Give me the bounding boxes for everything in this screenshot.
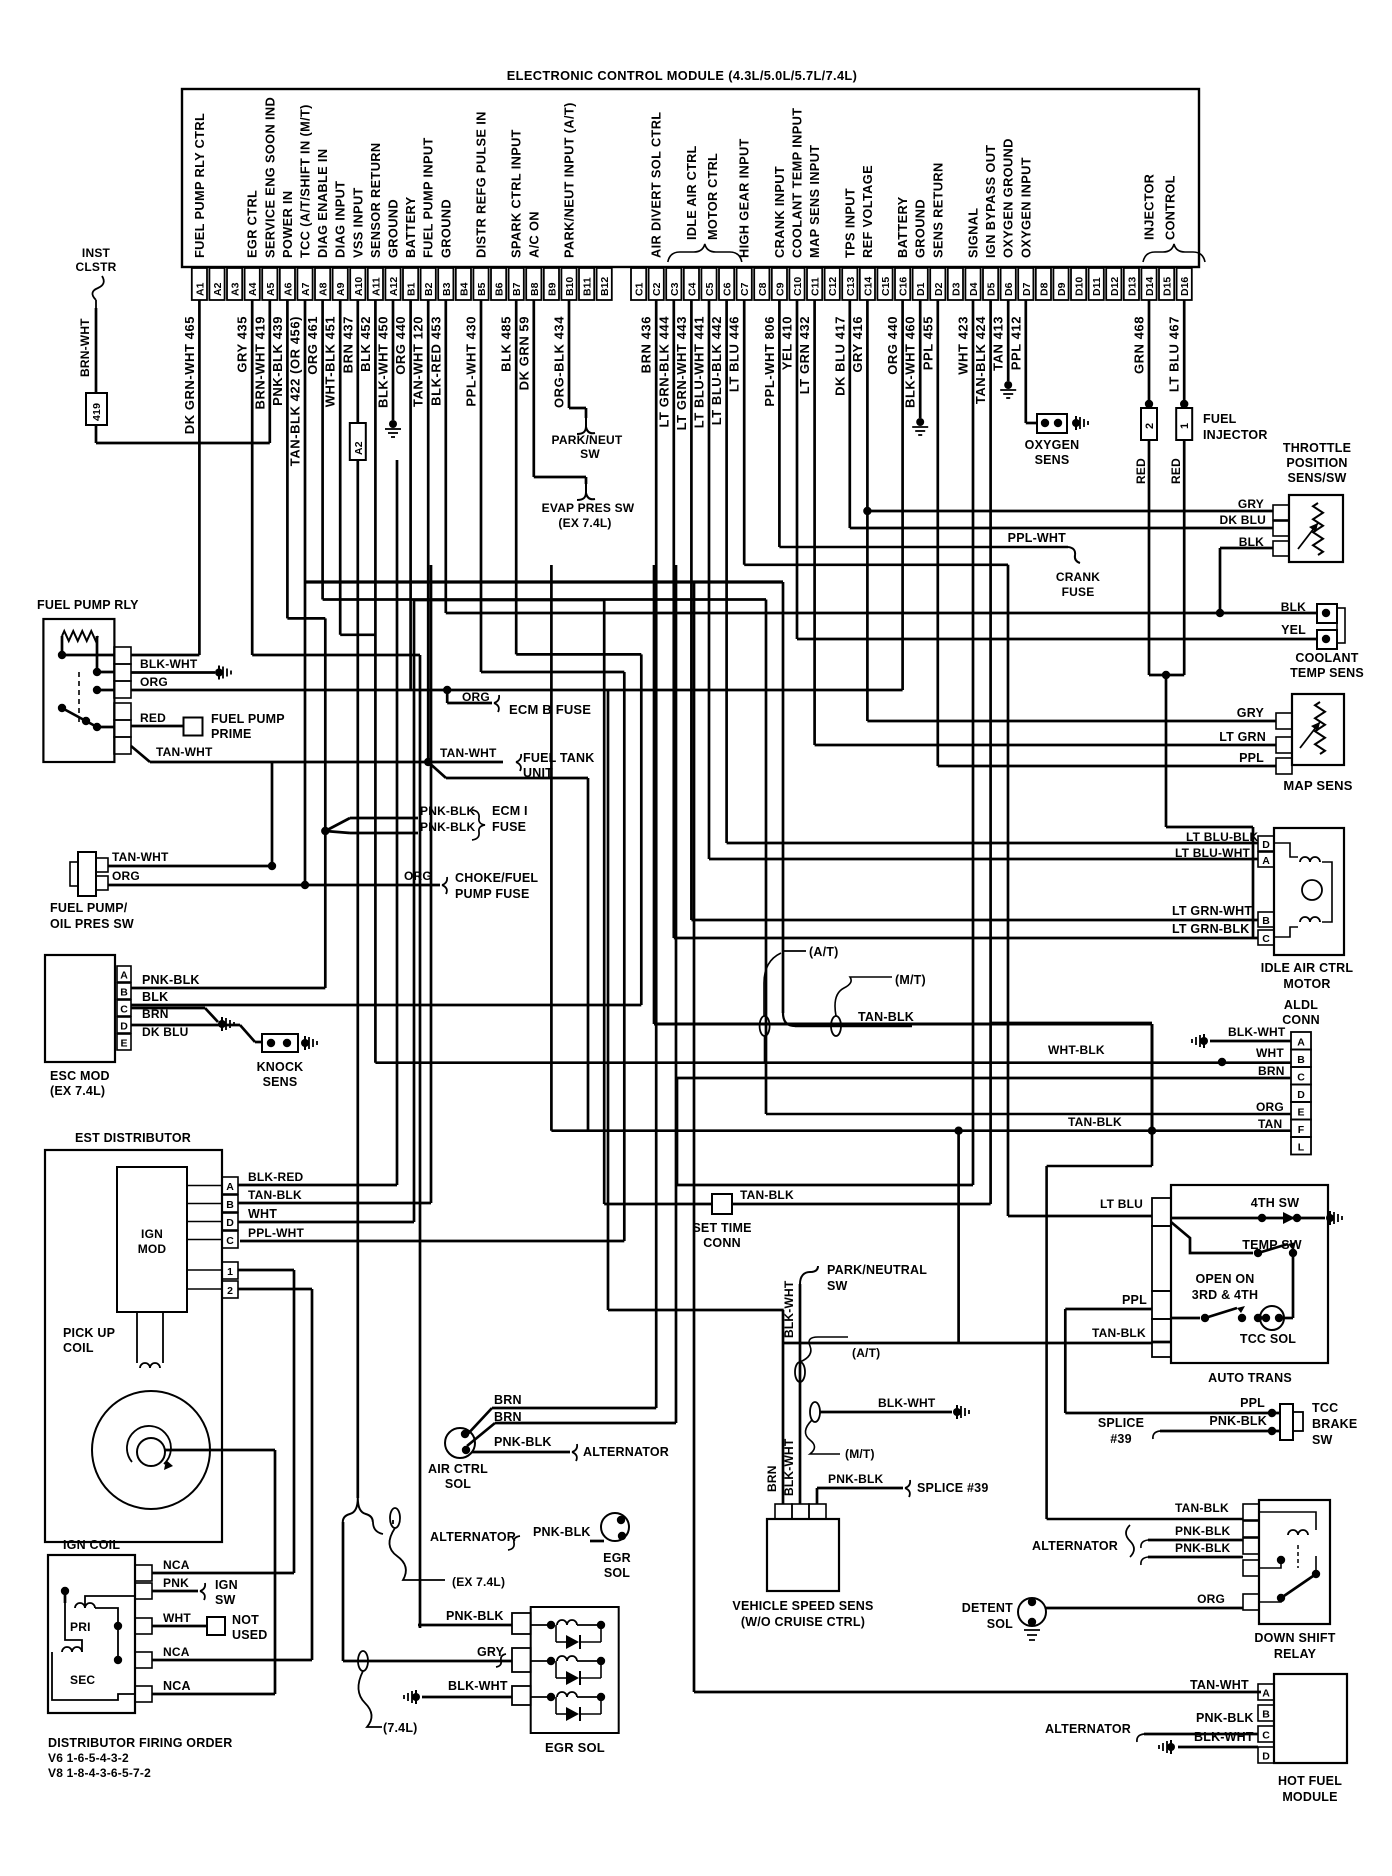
pin function label A10 VSS INPUT (350, 187, 365, 258)
svg-text:WHT-BLK: WHT-BLK (1048, 1043, 1105, 1057)
EGR SOL internal coils and diodes (531, 1620, 606, 1721)
map resistor (1300, 702, 1325, 754)
svg-text:4TH SW: 4TH SW (1251, 1196, 1299, 1210)
wire PNK-BLK air sol to alternator (472, 1435, 669, 1461)
label HOT FUEL MODULE (1278, 1774, 1342, 1804)
svg-text:LT GRN-WHT: LT GRN-WHT (1172, 904, 1252, 918)
wire B3 BLK-RED 453 to coolant temp BLK line (446, 300, 1317, 613)
svg-text:A3: A3 (230, 282, 242, 296)
svg-text:BRN: BRN (494, 1393, 522, 1407)
svg-text:PNK-BLK: PNK-BLK (1196, 1711, 1254, 1725)
svg-text:BRN-WHT 419: BRN-WHT 419 (252, 316, 267, 409)
idle air internals (1274, 843, 1332, 937)
svg-text:B7: B7 (511, 282, 523, 296)
ALDL connector boxes (1291, 1032, 1311, 1155)
svg-text:BATTERY: BATTERY (895, 196, 910, 258)
svg-text:FUEL PUMP RLY: FUEL PUMP RLY (37, 598, 139, 612)
svg-text:PPL 412: PPL 412 (1008, 316, 1023, 370)
svg-text:DISTRIBUTOR FIRING ORDER: DISTRIBUTOR FIRING ORDER (48, 1736, 232, 1750)
wire below A/T oval (764, 1036, 766, 1063)
pin D5 (983, 268, 998, 300)
wavy M/T pigtail (835, 977, 892, 1016)
svg-text:CONN: CONN (703, 1236, 741, 1250)
svg-text:NCA: NCA (163, 1645, 190, 1659)
svg-text:C: C (226, 1235, 234, 1247)
label LT GRN map (1219, 730, 1266, 744)
label 7.4L (383, 1721, 418, 1735)
svg-text:C4: C4 (686, 282, 698, 296)
wire D4 WHT 423 signal zigzag to ALDL C (677, 300, 1291, 1185)
wire label C16 ORG 440 (885, 316, 900, 375)
wire label B1 ORG 440 (393, 316, 408, 375)
svg-text:LT BLU-BLK 442: LT BLU-BLK 442 (709, 316, 724, 425)
wire ign mod 1 to ign coil NCA (238, 1270, 294, 1573)
wire ALDL C BRN (0, 0, 1, 1)
svg-text:WHT-BLK 451: WHT-BLK 451 (323, 316, 338, 407)
pin D6 (1001, 268, 1016, 300)
wire C6 LT BLU-BLK 442 to idle air D (727, 300, 1258, 843)
svg-text:LT BLU-WHT: LT BLU-WHT (1175, 846, 1251, 860)
svg-text:LT GRN-BLK 444: LT GRN-BLK 444 (656, 316, 671, 428)
svg-text:419: 419 (91, 403, 103, 421)
svg-text:SPLICE: SPLICE (1098, 1416, 1144, 1430)
pin function label D1 GROUND (913, 199, 928, 258)
wire C14 GRY 416 ref voltage to TPS and MAP (863, 300, 1276, 721)
pin D7 (1018, 268, 1033, 300)
oval AT on blk-wht (795, 1362, 805, 1382)
pin function label D14-D16 INJECTOR CONTROL with brace (1142, 174, 1206, 262)
wire C4 LT GRN-WHT 443 to idle air B (691, 300, 1258, 920)
wire hot fuel D BLK-WHT ground (1159, 1730, 1258, 1754)
pin A8 (315, 268, 330, 300)
pin D4 (965, 268, 980, 300)
wire A8 ORG 461 to ALDL E ORG (323, 300, 766, 1114)
svg-text:TAN-BLK: TAN-BLK (740, 1188, 794, 1202)
pin function label A1 FUEL PUMP RLY CTRL (192, 113, 207, 258)
svg-text:PNK-BLK: PNK-BLK (1175, 1524, 1231, 1538)
ECM module box (182, 89, 1199, 267)
svg-text:EGR: EGR (603, 1551, 631, 1565)
svg-text:CRANK INPUT: CRANK INPUT (772, 166, 787, 258)
label FUEL INJECTOR (1203, 412, 1268, 442)
pin B5 (473, 268, 488, 300)
pin B7 (509, 268, 524, 300)
wire alternator PNK-BLK to EGR sol circle (430, 1525, 604, 1550)
choke fuel pump fuse wire (110, 869, 538, 901)
label TAN-WHT relay (156, 745, 213, 759)
svg-text:RELAY: RELAY (1274, 1647, 1317, 1661)
svg-text:B: B (1297, 1054, 1305, 1066)
wire label A10 BRN 437 (340, 316, 355, 373)
label DISTRIBUTOR FIRING ORDER (48, 1736, 232, 1780)
label TAN-WHT fuel tank (440, 746, 497, 760)
svg-text:VEHICLE SPEED SENS: VEHICLE SPEED SENS (732, 1599, 873, 1613)
rotor arrow (127, 1426, 173, 1470)
wire air ctrl sol BRN second (467, 565, 676, 1446)
vehicle speed sens box (767, 1519, 839, 1591)
pin function label C10 COOLANT TEMP INPUT (790, 108, 805, 258)
wire ORG downshift from detent sol (1046, 1592, 1243, 1608)
label PPL auto trans (1122, 1293, 1147, 1307)
svg-text:BRN: BRN (142, 1007, 169, 1021)
svg-text:BLK-WHT: BLK-WHT (1228, 1025, 1286, 1039)
svg-text:A10: A10 (353, 277, 365, 296)
svg-text:GROUND: GROUND (438, 199, 453, 258)
svg-text:3RD & 4TH: 3RD & 4TH (1192, 1288, 1258, 1302)
pin D10 (1071, 268, 1086, 300)
svg-text:FUSE: FUSE (492, 820, 526, 834)
svg-text:PNK-BLK: PNK-BLK (446, 1609, 504, 1623)
svg-text:A2: A2 (212, 282, 224, 296)
svg-text:B8: B8 (529, 282, 541, 296)
svg-text:PPL: PPL (1239, 751, 1264, 765)
wire B5 PPL-WHT 430 to ign module pin C (240, 300, 624, 1241)
svg-text:FUEL PUMP RLY CTRL: FUEL PUMP RLY CTRL (192, 113, 207, 258)
svg-text:2: 2 (227, 1285, 233, 1297)
wire D2 PPL 455 to map sens PPL (938, 300, 1276, 766)
svg-text:SERVICE ENG SOON IND: SERVICE ENG SOON IND (262, 97, 277, 258)
oval connector EX 7.4L (390, 1508, 400, 1528)
ign coil tabs (135, 1565, 152, 1702)
svg-text:A4: A4 (247, 282, 259, 296)
svg-text:GROUND: GROUND (386, 199, 401, 258)
svg-text:C6: C6 (722, 282, 734, 296)
svg-text:D16: D16 (1179, 277, 1191, 296)
wire hot fuel C PNK-BLK alternator (1045, 1711, 1258, 1742)
pin C12 (825, 268, 840, 300)
feeder for set time (603, 600, 606, 1204)
svg-text:YEL 410: YEL 410 (780, 316, 795, 370)
pin C11 (807, 268, 822, 300)
injector 2 box (1141, 408, 1157, 440)
fuel pump relay coil (62, 631, 98, 672)
svg-text:BLK-RED: BLK-RED (248, 1170, 304, 1184)
svg-text:IDLE AIR CTRL: IDLE AIR CTRL (684, 145, 699, 240)
wire label A11 BLK 452 (358, 316, 373, 372)
wire A1 DK GRN-WHT 465 to fuel pump relay (131, 300, 199, 655)
svg-text:C9: C9 (774, 282, 786, 296)
svg-text:FUSE: FUSE (1062, 585, 1095, 599)
svg-text:A: A (1262, 855, 1270, 867)
svg-text:MAP SENS: MAP SENS (1283, 778, 1352, 793)
fuel pump relay label (37, 598, 139, 612)
EGR SOL tabs (512, 1613, 531, 1705)
pin function label C7 HIGH GEAR INPUT (737, 138, 752, 258)
svg-text:GRY 416: GRY 416 (850, 316, 865, 373)
hot fuel tabs ABCD (1258, 1684, 1274, 1763)
A/T curve to oval (764, 953, 781, 1016)
svg-text:OPEN ON: OPEN ON (1195, 1272, 1254, 1286)
svg-text:DK BLU 417: DK BLU 417 (832, 316, 847, 396)
wire label D2 PPL 455 (920, 316, 935, 370)
svg-text:MODULE: MODULE (1282, 1790, 1337, 1804)
svg-text:PUMP FUSE: PUMP FUSE (455, 887, 530, 901)
wire B2 TAN-WHT 120 to fuel tank unit line (424, 300, 588, 1131)
label YEL coolant (1281, 623, 1306, 637)
map connector tabs (1276, 713, 1292, 774)
wire D5 TAN-BLK 424 to set time conn (989, 300, 992, 1204)
label AUTO TRANS (1208, 1371, 1292, 1385)
label ORG relay (140, 675, 168, 689)
svg-text:COOLANT TEMP INPUT: COOLANT TEMP INPUT (790, 108, 805, 258)
svg-text:UNIT: UNIT (523, 766, 553, 780)
ign coil internals (52, 1587, 135, 1700)
wire ign coil PNK to ign sw (152, 1576, 238, 1607)
svg-text:AIR DIVERT SOL CTRL: AIR DIVERT SOL CTRL (649, 112, 664, 258)
pin C9 (772, 268, 787, 300)
wire tan-blk tab (1152, 1341, 1171, 1344)
pin B1 (403, 268, 418, 300)
svg-text:C16: C16 (898, 277, 910, 296)
svg-text:ORG 461: ORG 461 (305, 316, 320, 375)
svg-text:SOL: SOL (987, 1617, 1013, 1631)
svg-text:PARK/NEUT: PARK/NEUT (552, 433, 623, 447)
svg-text:DIAG INPUT: DIAG INPUT (333, 181, 348, 258)
svg-text:PRI: PRI (70, 1620, 91, 1634)
label LT GRN-BLK idle air (1172, 922, 1249, 936)
svg-text:PNK-BLK: PNK-BLK (1175, 1541, 1231, 1555)
svg-text:TAN-BLK: TAN-BLK (1175, 1501, 1229, 1515)
hook fuel tank unit (516, 754, 521, 771)
label GRY egr (477, 1645, 506, 1667)
wire label C2 BRN 436 (639, 316, 654, 373)
svg-text:INJECTOR: INJECTOR (1142, 174, 1157, 240)
pin function label D5 IGN BYPASS OUT (983, 145, 998, 258)
wire label C7 LT BLU 446 (727, 316, 742, 392)
svg-text:VSS INPUT: VSS INPUT (350, 187, 365, 258)
pin function label B2 FUEL PUMP INPUT (421, 137, 436, 258)
wire oil pres ORG to choke line (108, 884, 110, 887)
pin function label C16 BATTERY (895, 196, 910, 258)
svg-text:LT BLU: LT BLU (1100, 1197, 1143, 1211)
fuel pump relay internal contacts (58, 651, 114, 731)
svg-text:GROUND: GROUND (913, 199, 928, 258)
label ORG aldl (1256, 1100, 1284, 1114)
wavy wire to 7.4L label (358, 1671, 382, 1727)
pin function label A9 DIAG INPUT (333, 181, 348, 258)
svg-text:PPL: PPL (1240, 1396, 1265, 1410)
wire C10 YEL 410 to coolant temp sens (797, 300, 1317, 639)
svg-text:B5: B5 (476, 282, 488, 296)
svg-text:D9: D9 (1056, 282, 1068, 296)
svg-text:DOWN SHIFT: DOWN SHIFT (1254, 1631, 1335, 1645)
svg-text:A: A (226, 1181, 234, 1193)
svg-text:C3: C3 (669, 282, 681, 296)
pin A11 (368, 268, 383, 300)
pin function label A4 EGR CTRL (245, 190, 260, 258)
svg-text:(A/T): (A/T) (852, 1346, 880, 1360)
svg-text:NCA: NCA (163, 1558, 190, 1572)
wire B7 BLK 485 to ESC mod pin B (516, 300, 641, 1005)
pin C3 (666, 268, 681, 300)
svg-text:C12: C12 (827, 277, 839, 296)
wire label A4 GRY 435 (235, 316, 250, 373)
wire EGR BLK-WHT ground (404, 1679, 512, 1704)
pin function label A12 GROUND (386, 199, 401, 258)
svg-text:(EX 7.4L): (EX 7.4L) (558, 516, 611, 530)
wire set time conn TAN-BLK (732, 1188, 991, 1204)
svg-text:FUEL PUMP/: FUEL PUMP/ (50, 901, 128, 915)
distributor rotor circle (92, 1391, 210, 1509)
air ctrl sol circle (445, 1428, 475, 1458)
pin D12 (1106, 268, 1121, 300)
svg-text:IGN COIL: IGN COIL (63, 1538, 120, 1552)
heavy vertical to auto trans (991, 1022, 1152, 1025)
svg-text:A9: A9 (335, 282, 347, 296)
label EVAP PRES SW (EX 7.4L) (542, 501, 635, 530)
svg-text:D: D (1262, 839, 1270, 851)
svg-text:D: D (120, 1021, 128, 1033)
label TAN aldl (1258, 1117, 1282, 1131)
svg-text:TAN-BLK 422 (OR 456): TAN-BLK 422 (OR 456) (288, 316, 303, 466)
wire EGR split left branch GRY (343, 1522, 512, 1661)
wire label C4 LT GRN-WHT 443 (674, 316, 689, 430)
label LT GRN-WHT idle air (1172, 904, 1252, 918)
pin function label D4 SIGNAL (966, 208, 981, 258)
wire label A7 TAN-BLK 422 (OR 456) (288, 316, 303, 466)
svg-text:B3: B3 (441, 282, 453, 296)
svg-text:SENS: SENS (1035, 453, 1070, 467)
label TCC SOL (1240, 1332, 1296, 1346)
svg-text:E: E (1297, 1107, 1304, 1119)
svg-text:BATTERY: BATTERY (403, 196, 418, 258)
label TCC BRAKE SW (1312, 1401, 1357, 1447)
svg-text:LT BLU 446: LT BLU 446 (727, 316, 742, 392)
wire hot fuel A (0, 0, 1, 1)
wire label D14 GRN 468 (1132, 316, 1147, 374)
svg-text:ORG 440: ORG 440 (885, 316, 900, 375)
wire EGR split right branch EX 7.4L tail (373, 1520, 393, 1534)
pin A3 (227, 268, 242, 300)
pin function label C13 TPS INPUT (842, 188, 857, 258)
svg-text:V8 1-8-4-3-6-5-7-2: V8 1-8-4-3-6-5-7-2 (48, 1766, 151, 1780)
wire 4th sw (1171, 1211, 1342, 1225)
svg-text:GRY: GRY (1237, 706, 1265, 720)
wire temp sw (1171, 1222, 1297, 1318)
svg-text:E: E (120, 1038, 127, 1050)
ECM B fuse branch (447, 690, 591, 717)
pin C16 (895, 268, 910, 300)
svg-text:OXYGEN INPUT: OXYGEN INPUT (1018, 157, 1033, 258)
wire ESC C BRN to ground (131, 1007, 234, 1031)
svg-text:PARK/NEUT INPUT (A/T): PARK/NEUT INPUT (A/T) (562, 102, 577, 258)
auto trans box (1171, 1185, 1328, 1363)
label CRANK FUSE (1056, 570, 1100, 599)
wire label D5 TAN-BLK 424 (973, 316, 988, 404)
svg-text:C: C (1297, 1072, 1305, 1084)
auto trans connector tabs (1152, 1198, 1171, 1357)
pin C8 (754, 268, 769, 300)
svg-text:C15: C15 (880, 277, 892, 296)
svg-text:EGR SOL: EGR SOL (545, 1740, 605, 1755)
wire relay TAN-WHT fuel tank unit line (131, 746, 503, 762)
wire ign mod D WHT (238, 600, 604, 1222)
label OPEN ON 3RD 4TH (1192, 1272, 1258, 1302)
wire PNK-BLK downshift 1 (1141, 1524, 1243, 1548)
map sens box (1292, 694, 1344, 765)
svg-text:AIR CTRL: AIR CTRL (428, 1462, 488, 1476)
pin B10 (561, 268, 576, 300)
svg-text:A11: A11 (370, 277, 382, 296)
svg-text:BRN 436: BRN 436 (639, 316, 654, 373)
label PARK/NEUT SW (552, 433, 623, 461)
wire BLK-WHT branch to ground (810, 1396, 969, 1422)
svg-text:ALDL: ALDL (1284, 998, 1318, 1012)
svg-text:BLK: BLK (1239, 535, 1264, 549)
injector 1 box (1176, 408, 1192, 440)
svg-text:D12: D12 (1109, 277, 1121, 296)
pin A7 (297, 268, 312, 300)
label BRN air sol 2 (494, 1410, 522, 1424)
svg-text:BRN: BRN (494, 1410, 522, 1424)
wire label A6 PNK-BLK 439 (270, 316, 285, 406)
svg-text:A7: A7 (300, 282, 312, 296)
label PPL map (1239, 751, 1264, 765)
svg-text:WHT: WHT (248, 1207, 277, 1221)
svg-text:D: D (1262, 1751, 1270, 1763)
svg-text:HOT FUEL: HOT FUEL (1278, 1774, 1342, 1788)
svg-text:D: D (1297, 1089, 1305, 1101)
label EST DISTRIBUTOR (75, 1131, 191, 1145)
label BRN aldl (1258, 1064, 1285, 1078)
pin function label D2 SENS RETURN (930, 162, 945, 258)
A/T pigtail branch (783, 945, 838, 959)
svg-text:PARK/NEUTRAL: PARK/NEUTRAL (827, 1263, 927, 1277)
wire ign coil NCA mid (152, 1645, 312, 1660)
svg-text:BLK-WHT: BLK-WHT (448, 1679, 508, 1693)
wire label C3 LT GRN-BLK 444 (656, 316, 671, 428)
svg-text:THROTTLE: THROTTLE (1283, 441, 1351, 455)
wire PNK-BLK vss to splice 39 (817, 1472, 988, 1504)
wire label C10 YEL 410 (780, 316, 795, 370)
svg-text:B6: B6 (494, 282, 506, 296)
coolant temp sens connector (1317, 604, 1345, 649)
label TAN-WHT hot fuel (1190, 1678, 1249, 1692)
svg-text:BRN 437: BRN 437 (340, 316, 355, 373)
svg-text:BLK-WHT 450: BLK-WHT 450 (376, 316, 391, 408)
label SET TIME CONN (692, 1221, 751, 1250)
heavy wire to down shift relay (654, 565, 1243, 1519)
junction ECM B fuse (443, 686, 451, 694)
label COOLANT TEMP SENS (1290, 651, 1364, 680)
label ESC MOD EX 7.4L (50, 1069, 110, 1098)
fuel pump oil pres sw box (70, 852, 108, 896)
svg-text:C13: C13 (845, 277, 857, 296)
svg-text:#39: #39 (1110, 1432, 1131, 1446)
inst clstr label (76, 246, 117, 274)
svg-text:IGN: IGN (141, 1227, 163, 1241)
wire injector RED commons (1149, 440, 1253, 938)
svg-text:SPARK CTRL INPUT: SPARK CTRL INPUT (509, 129, 524, 258)
svg-text:TAN 413: TAN 413 (991, 316, 1006, 371)
detent sol circle (1018, 1598, 1046, 1640)
wire B8 DK GRN 59 to evap pres sw (534, 300, 586, 484)
svg-text:KNOCK: KNOCK (257, 1060, 304, 1074)
label RED injector 1 (1169, 458, 1183, 484)
svg-text:DK GRN-WHT 465: DK GRN-WHT 465 (182, 316, 197, 434)
svg-text:PRIME: PRIME (211, 727, 252, 741)
pin function label B5 DISTR REFG PULSE IN (474, 111, 489, 258)
svg-text:DISTR REFG PULSE IN: DISTR REFG PULSE IN (474, 111, 489, 258)
svg-text:SPLICE #39: SPLICE #39 (917, 1481, 988, 1495)
svg-text:BLK-RED 453: BLK-RED 453 (428, 316, 443, 406)
wire C7 LT BLU 446 high gear to auto trans LT BLU (744, 300, 1152, 1216)
svg-text:B: B (120, 987, 128, 999)
svg-text:SEC: SEC (70, 1673, 95, 1687)
hot fuel module box (1274, 1674, 1347, 1763)
label BLK coolant (1281, 600, 1306, 614)
tps resistor (1298, 503, 1323, 555)
